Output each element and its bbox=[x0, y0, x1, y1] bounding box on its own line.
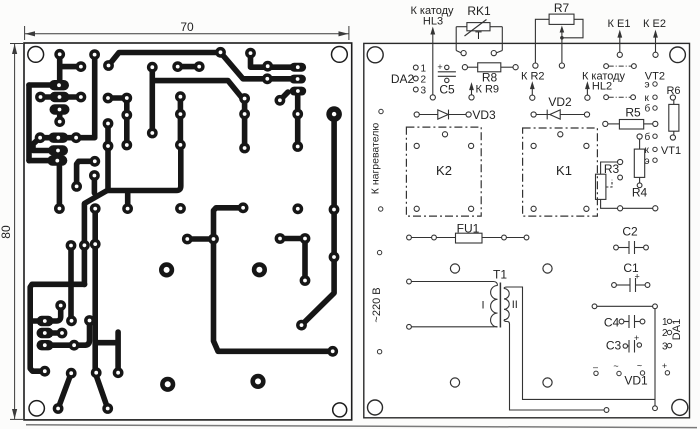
PCB board outline (copper side) bbox=[24, 43, 352, 420]
pad bbox=[66, 315, 77, 326]
pad bbox=[262, 73, 273, 84]
pad К Е2 bbox=[653, 52, 658, 57]
R7 wiper arrowhead bbox=[560, 26, 565, 33]
pad bbox=[57, 328, 68, 339]
pad VD3 right bbox=[466, 112, 471, 117]
pad bbox=[54, 49, 65, 60]
pad bbox=[239, 93, 250, 104]
pad K1 ne bbox=[584, 143, 589, 148]
pad via bbox=[292, 203, 303, 214]
PCB board outline (component side) bbox=[364, 43, 690, 417]
wire bar y238.5 with vertical bbox=[280, 239, 305, 281]
capacitor C4 bbox=[624, 315, 640, 328]
node К R2 arrow bbox=[530, 81, 535, 95]
node К катоду HL2 label bbox=[582, 71, 626, 93]
svg-text:K2: K2 bbox=[436, 163, 452, 178]
pad link right bbox=[653, 304, 658, 309]
mounting hole bottom-left bbox=[29, 401, 44, 416]
pad bbox=[89, 49, 100, 60]
via (large) bbox=[250, 374, 265, 389]
pad HL3 wire bbox=[430, 95, 435, 100]
pad RK1 right bbox=[491, 51, 496, 56]
pad bbox=[39, 366, 50, 377]
pad R5 right bbox=[653, 121, 658, 126]
resistor R4 bbox=[634, 140, 644, 184]
pad К R9 bbox=[469, 95, 474, 100]
pad K1 coil top bbox=[558, 132, 563, 137]
wire top-left vertical with branch bbox=[60, 54, 81, 85]
pad K1 nw bbox=[531, 143, 536, 148]
pad bbox=[76, 92, 87, 103]
transformer T1 secondary winding bbox=[504, 289, 509, 320]
pad bbox=[239, 143, 250, 154]
wire L-link rows 137-150 bbox=[33, 138, 50, 151]
pad HL2 bbox=[585, 95, 590, 100]
wire top rail y52 bbox=[109, 53, 221, 66]
pad bbox=[91, 367, 102, 378]
pad bbox=[245, 48, 256, 59]
VT1 emitter pin bbox=[645, 156, 658, 167]
svg-text:I: I bbox=[481, 300, 484, 312]
scan artifact line bottom bbox=[26, 425, 697, 428]
mounting hole bottom-right bbox=[333, 403, 347, 417]
pad R3 bottom bbox=[618, 206, 623, 211]
VT2 emitter pin bbox=[645, 80, 658, 91]
pad bbox=[275, 233, 286, 244]
pad К R2 bbox=[530, 95, 535, 100]
oval blob bar3 bbox=[37, 340, 54, 350]
oval pad row67.5 bbox=[290, 63, 307, 72]
svg-text:HL2: HL2 bbox=[592, 81, 612, 93]
via (large) bbox=[160, 377, 175, 392]
svg-text:DA2: DA2 bbox=[391, 72, 415, 86]
pad bbox=[262, 61, 273, 72]
pad C4 left bbox=[619, 319, 624, 324]
wire big left loop bbox=[30, 246, 84, 372]
pad R8 left bbox=[462, 65, 467, 70]
rectifier DA1 pin 3 bbox=[662, 341, 672, 352]
hole relay mount se bbox=[543, 378, 552, 387]
svg-text:К нагревателю: К нагревателю bbox=[370, 123, 382, 195]
node К R9 arrow bbox=[469, 82, 474, 95]
DA2 pin 3 bbox=[413, 86, 426, 97]
pad bbox=[292, 141, 303, 152]
pad R4 bottom bbox=[637, 183, 642, 188]
VT2 base pin bbox=[645, 103, 658, 115]
pad bbox=[54, 203, 65, 214]
svg-text:б: б bbox=[645, 103, 651, 115]
svg-text:2: 2 bbox=[421, 75, 427, 86]
pad VD2 left bbox=[531, 112, 536, 117]
svg-text:1: 1 bbox=[421, 64, 427, 75]
pad К Е1 bbox=[617, 52, 622, 57]
svg-text:80: 80 bbox=[0, 225, 13, 239]
mounting hole top-left bbox=[28, 47, 44, 63]
wire V2 long vertical with diagonal to bottom cluster bbox=[84, 124, 108, 285]
VT1 collector pin bbox=[645, 145, 658, 156]
pad C3 left bbox=[623, 344, 627, 348]
dimension line 70 (top) bbox=[25, 26, 349, 40]
svg-text:б: б bbox=[645, 131, 651, 143]
svg-text:R7: R7 bbox=[554, 1, 570, 15]
pad secondary wire right bbox=[653, 406, 658, 411]
pad bbox=[238, 202, 249, 213]
wire row y160.6 bbox=[29, 158, 57, 164]
wire horizontal link bbox=[597, 305, 653, 307]
pad via bbox=[175, 203, 186, 214]
svg-text:К R2: К R2 bbox=[521, 71, 545, 83]
svg-text:K1: K1 bbox=[556, 163, 572, 178]
diode VD2 bbox=[536, 110, 584, 120]
wire vertical x152 bbox=[150, 67, 156, 133]
wire arrow К Е2 bbox=[653, 30, 658, 53]
transformer T1 primary lead top bbox=[411, 282, 498, 286]
wire right vertical x334 with diagonal bbox=[302, 114, 335, 325]
node HL2 arrow bbox=[585, 81, 590, 95]
wire bottom link to pad bbox=[623, 207, 653, 209]
pad C2 right bbox=[644, 245, 649, 250]
pad C5 bottom bbox=[445, 78, 449, 82]
pad K2 ne bbox=[469, 143, 474, 148]
pad bbox=[66, 368, 77, 379]
wire short bar y66.6 bbox=[178, 64, 200, 70]
pad bbox=[147, 62, 158, 73]
pad C1 right bbox=[645, 283, 650, 288]
svg-text:C2: C2 bbox=[622, 225, 638, 239]
wire oval row y90.5 stub and vertical x297.7 bbox=[280, 92, 298, 147]
pad C2 left bbox=[614, 245, 619, 250]
pad bbox=[147, 128, 158, 139]
pad R7 wiper bbox=[559, 63, 564, 68]
wire route x213 with bottom horizontal bbox=[187, 208, 332, 351]
pad bbox=[194, 61, 205, 72]
svg-text:VT1: VT1 bbox=[661, 145, 681, 157]
pad bbox=[275, 95, 286, 106]
svg-text:RK1: RK1 bbox=[467, 4, 491, 18]
pad bbox=[89, 170, 100, 181]
svg-text:–: – bbox=[593, 362, 598, 372]
svg-text:+: + bbox=[662, 361, 667, 371]
pad R6 top bbox=[670, 95, 675, 100]
pad R7 left bbox=[533, 63, 538, 68]
mounting hole top-left bbox=[367, 47, 383, 63]
pad bbox=[103, 60, 114, 71]
pad left edge top bbox=[379, 109, 383, 113]
pad bbox=[215, 47, 226, 58]
pad bbox=[66, 240, 77, 251]
pad bbox=[53, 403, 64, 414]
oval pad y85 bbox=[49, 80, 69, 90]
svg-text:VD2: VD2 bbox=[548, 95, 572, 109]
pad C1 left bbox=[612, 283, 617, 288]
pad K1 se bbox=[584, 206, 589, 211]
svg-text:э: э bbox=[645, 156, 650, 167]
pad link right bbox=[653, 206, 658, 211]
pad bbox=[292, 109, 303, 120]
resistor R5 bbox=[608, 120, 653, 130]
pad bbox=[79, 240, 90, 251]
mounting hole top-right bbox=[332, 47, 348, 63]
pad R5 left bbox=[603, 121, 608, 126]
VT1 base pin upper bbox=[645, 131, 658, 143]
oval pad y160.6 bbox=[47, 155, 67, 165]
wire T1 secondary top to right joint bbox=[504, 287, 655, 399]
wire diagonal to row y75 bbox=[221, 53, 292, 79]
svg-text:к: к bbox=[645, 93, 650, 104]
pad left edge upper bbox=[377, 250, 381, 254]
pad bbox=[121, 140, 132, 151]
pad bbox=[175, 109, 186, 120]
pad (large) node bbox=[326, 106, 342, 122]
pad C4 right bbox=[640, 319, 645, 324]
svg-text:HL3: HL3 bbox=[423, 16, 443, 28]
pad K2 coil top bbox=[442, 132, 447, 137]
hole relay mount nw bbox=[450, 264, 459, 273]
pad bbox=[35, 92, 46, 103]
pad bbox=[121, 93, 132, 104]
pad bbox=[84, 315, 95, 326]
svg-text:R4: R4 bbox=[632, 186, 648, 200]
fuse FU1 bbox=[412, 233, 525, 243]
pad K2 sw bbox=[414, 206, 419, 211]
pad link left bbox=[592, 304, 597, 309]
oval pad y109.5 bbox=[50, 104, 70, 114]
svg-text:T: T bbox=[475, 30, 482, 42]
pad bbox=[103, 93, 114, 104]
via (large) bbox=[159, 262, 174, 277]
node К катоду HL3 label bbox=[410, 5, 454, 28]
pad bbox=[103, 118, 114, 129]
pad T1 primary bottom bbox=[407, 324, 412, 329]
pad T1 primary top bbox=[407, 279, 412, 284]
resistor R6 bbox=[669, 100, 679, 135]
wire stub pad94 to diagonal bbox=[92, 176, 98, 194]
wire L pad94-161 to pad76-186 bbox=[77, 161, 95, 186]
relay K2 outline (dash-dot) bbox=[406, 127, 481, 216]
bridge VD1 pin ac3 bbox=[637, 361, 645, 376]
svg-text:70: 70 bbox=[180, 20, 194, 34]
svg-text:К R9: К R9 bbox=[476, 84, 500, 96]
pad VD2 right bbox=[584, 112, 589, 117]
pad left edge lower bbox=[377, 350, 381, 354]
svg-text:C5: C5 bbox=[439, 82, 455, 96]
wire row y137.7 with vertical V1 up bbox=[40, 55, 95, 138]
capacitor C1 bbox=[617, 278, 646, 292]
wire link down to bottom joint bbox=[654, 309, 656, 406]
wire arrow to HL3 cathode bbox=[430, 27, 435, 96]
relay K1 outline (dash-dot) bbox=[523, 128, 598, 216]
mounting hole top-right bbox=[670, 47, 686, 63]
pad left edge mid bbox=[379, 207, 383, 211]
DA2 pin 1 bbox=[413, 64, 426, 75]
pad bbox=[329, 204, 340, 215]
wire bar2 y333 bbox=[44, 330, 62, 336]
wire bar1 y321 bbox=[30, 308, 61, 321]
pad bbox=[327, 346, 338, 357]
diode VD3 bbox=[419, 110, 468, 120]
rectifier DA1 pin 1 bbox=[662, 317, 672, 328]
wire left rail vertical bbox=[26, 85, 32, 161]
bridge VD1 pin plus bbox=[662, 361, 670, 375]
jumper wire top (dash-dot) bbox=[604, 64, 637, 69]
pad bbox=[121, 110, 132, 121]
via (large) bbox=[252, 262, 267, 277]
svg-text:T1: T1 bbox=[493, 268, 507, 282]
wire vertical x96 with H-bar and slant to bottom bbox=[95, 209, 118, 409]
svg-text:VD1: VD1 bbox=[624, 374, 648, 388]
wire stub oval109 to pad bbox=[57, 110, 63, 122]
thermistor RK1 bbox=[456, 20, 502, 53]
pad bbox=[300, 233, 311, 244]
svg-text:~: ~ bbox=[613, 361, 618, 371]
dimension line 80 (left) bbox=[10, 44, 23, 420]
pad FU1 outer right bbox=[524, 235, 529, 240]
pad bbox=[71, 181, 82, 192]
pad R6 bottom bbox=[670, 135, 675, 140]
potentiometer R7 bbox=[535, 14, 583, 63]
trimmer R3 bbox=[596, 162, 618, 208]
resistor R8 bbox=[468, 63, 514, 72]
jumper wire bottom (dash-dot) bbox=[604, 95, 636, 100]
wire bar y98 and vertical x126.8 bbox=[108, 98, 127, 145]
pad bbox=[113, 367, 124, 378]
pad bbox=[296, 320, 307, 331]
pad bbox=[102, 403, 113, 414]
wire row y97 bbox=[41, 94, 81, 100]
svg-text:DA1: DA1 bbox=[671, 319, 683, 340]
wire vertical x180.4 bbox=[178, 97, 184, 145]
pad R3 wiper bbox=[618, 175, 623, 180]
pad R4 top bbox=[637, 134, 642, 139]
wire slant pad71 to pad58 bbox=[58, 373, 71, 408]
svg-text:К Е1: К Е1 bbox=[608, 18, 631, 30]
pad bbox=[103, 141, 114, 152]
svg-text:C3: C3 bbox=[606, 339, 622, 353]
pad FU1 inner left bbox=[432, 235, 437, 240]
pad junction bbox=[208, 234, 219, 245]
pad bbox=[71, 132, 82, 143]
svg-text:C4: C4 bbox=[604, 316, 620, 330]
wire row y85 to left rail bbox=[29, 82, 52, 88]
capacitor C3 bbox=[628, 340, 635, 353]
pad bbox=[239, 109, 250, 120]
svg-text:II: II bbox=[512, 299, 518, 311]
pad C5 top bbox=[445, 65, 449, 69]
pad bbox=[172, 61, 183, 72]
wire arrow К Е1 bbox=[617, 30, 622, 53]
transformer T1 primary lead bottom bbox=[411, 326, 498, 328]
bridge VD1 pin ac1 bbox=[593, 362, 598, 375]
pad secondary wire left bbox=[604, 408, 609, 413]
pad FU1 outer left bbox=[407, 235, 412, 240]
VT2 collector pin bbox=[645, 93, 658, 104]
pad R3 top bbox=[618, 159, 623, 164]
transformer T1 primary winding bbox=[491, 286, 498, 327]
wire branch of V2 to pad 127 bbox=[108, 150, 181, 207]
svg-text:R5: R5 bbox=[625, 106, 641, 120]
wire T1 secondary bottom to bottom-left pad bbox=[504, 320, 604, 410]
oval pad row90.5 bbox=[290, 87, 307, 96]
svg-text:~220 В: ~220 В bbox=[371, 287, 383, 322]
DA2 pin 2 bbox=[413, 75, 426, 86]
pad bbox=[90, 239, 101, 250]
bridge VD1 pin ac2 bbox=[613, 361, 621, 376]
oval pad row75 bbox=[289, 75, 306, 84]
wire row y67.5 from pad above bbox=[251, 53, 293, 67]
pad bbox=[300, 275, 311, 286]
mounting hole bottom-left bbox=[368, 400, 383, 415]
svg-text:3: 3 bbox=[421, 86, 427, 97]
oval pad y150.5 bbox=[48, 145, 68, 155]
hole relay mount sw bbox=[450, 378, 459, 387]
pad bbox=[76, 61, 87, 72]
svg-text:~: ~ bbox=[637, 361, 642, 371]
svg-text:VD3: VD3 bbox=[472, 108, 496, 122]
pad K1 sw bbox=[531, 206, 536, 211]
rectifier DA1 pin 2 bbox=[662, 328, 672, 339]
oval blob bar2 bbox=[37, 328, 54, 338]
pad bbox=[35, 132, 46, 143]
pad K2 se bbox=[469, 206, 474, 211]
wire stub row160 down to pad bbox=[57, 163, 63, 209]
svg-text:К Е2: К Е2 bbox=[643, 18, 666, 30]
oval blob bar1 bbox=[37, 316, 54, 326]
pad bbox=[90, 203, 101, 214]
mounting hole bottom-right bbox=[672, 399, 688, 415]
pad bbox=[69, 340, 80, 351]
oval pad holes bbox=[43, 65, 300, 347]
oval pad y97 bbox=[50, 92, 70, 102]
svg-text:R8: R8 bbox=[482, 71, 498, 85]
pad bbox=[89, 156, 100, 167]
pad FU1 inner right bbox=[502, 235, 507, 240]
wire bar3 y345 bbox=[44, 323, 90, 345]
oval pad y137.7 bbox=[48, 133, 68, 143]
pad bbox=[175, 91, 186, 102]
pad C3 right bbox=[637, 343, 641, 347]
R7 wiper junction bbox=[560, 36, 564, 40]
pad bbox=[329, 252, 340, 263]
wire branch y80.6 diagonal to x244.6 vertical bbox=[152, 81, 244, 148]
capacitor C2 bbox=[619, 241, 645, 254]
pad bbox=[54, 116, 65, 127]
hole relay mount ne bbox=[543, 264, 552, 273]
svg-text:э: э bbox=[645, 80, 650, 91]
svg-text:+: + bbox=[437, 62, 442, 72]
pad bbox=[55, 300, 66, 311]
pad R8 right bbox=[513, 65, 518, 70]
pad bbox=[175, 140, 186, 151]
pad VD3 left bbox=[414, 112, 419, 117]
pad RK1 left bbox=[461, 51, 466, 56]
pad K2 nw bbox=[414, 143, 419, 148]
capacitor C5 bbox=[438, 72, 456, 77]
pad bbox=[182, 234, 193, 245]
transformer T1 core bbox=[499, 283, 501, 328]
pad bbox=[122, 203, 133, 214]
